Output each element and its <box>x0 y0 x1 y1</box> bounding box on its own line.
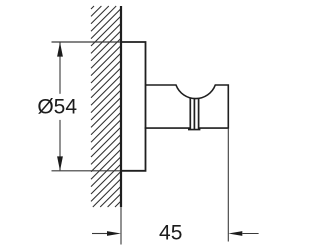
arrow down Ø54 <box>57 156 63 170</box>
wall surface line <box>120 6 122 207</box>
dimension tail right 45 <box>242 233 258 235</box>
arrow up Ø54 <box>57 42 63 56</box>
dimension line Ø54 upper segment <box>59 43 61 94</box>
stem line right <box>198 98 200 130</box>
stem line left <box>189 98 191 130</box>
svg-text:45: 45 <box>159 222 182 245</box>
extension line top (Ø54) <box>52 41 122 43</box>
arrow left-pointing 45 <box>228 231 242 236</box>
dimension tail left 45 <box>92 233 108 235</box>
dimension line Ø54 lower segment <box>59 120 61 170</box>
hook body outline with notch arc <box>145 85 229 130</box>
stem line middle <box>193 98 195 129</box>
svg-text:Ø54: Ø54 <box>37 96 77 119</box>
wall hatching <box>91 6 121 207</box>
extension line right of 45 dim (hook front face extended) <box>227 128 229 241</box>
arrow right-pointing 45 <box>107 231 121 236</box>
extension line bottom (Ø54) <box>52 170 122 172</box>
wire extension of wall line (left extension line of 45 dim) <box>120 207 122 245</box>
flange outline <box>120 42 146 171</box>
